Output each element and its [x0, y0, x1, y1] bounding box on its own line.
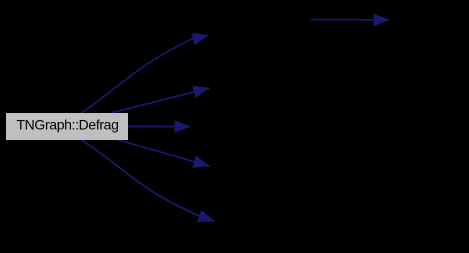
edge TNGraph::Defrag -> callee5 (curved down) — [82, 140, 214, 221]
edge TNGraph::Defrag -> callee2 — [112, 88, 210, 113]
edge TNGraph::Defrag -> callee4 — [117, 140, 210, 167]
edge TNGraph::Defrag -> callee3 (horizontal) — [128, 126, 191, 128]
node TNGraph::Defrag — [6, 113, 128, 140]
edge TNGraph::Defrag -> callee1 (curved up) — [81, 35, 208, 113]
edge callee1 -> sub-callee (top right horizontal) — [311, 19, 389, 21]
svg-text:TNGraph::Defrag: TNGraph::Defrag — [16, 117, 118, 133]
